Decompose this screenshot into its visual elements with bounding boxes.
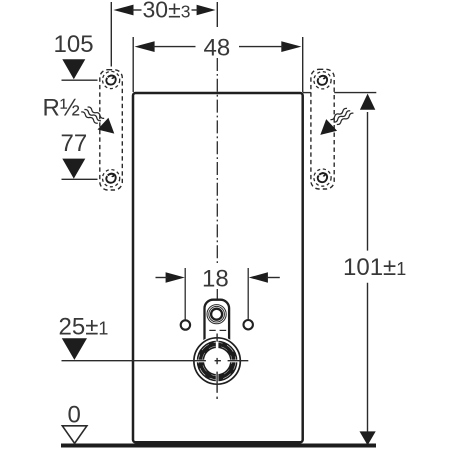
svg-text:R½: R½	[43, 95, 80, 122]
dim 101±1 top arrow (up)	[360, 94, 375, 110]
screw top-right	[314, 72, 331, 89]
drain outlet white disc	[192, 336, 242, 386]
wire: vertical centerline dash-dot	[216, 58, 218, 299]
height marker 77 triangle	[62, 159, 85, 179]
height marker 25 triangle	[62, 338, 87, 360]
svg-text:30±3: 30±3	[143, 0, 191, 23]
dim 48 right arrow	[281, 41, 301, 52]
screw bottom-right	[314, 169, 331, 186]
dim 101±1 bottom arrow (down)	[360, 431, 376, 445]
panel outline	[133, 93, 303, 442]
label 18	[200, 266, 231, 289]
wavy arrow left	[81, 105, 115, 134]
dim 18 extension line right	[247, 268, 249, 320]
vertical crosshair	[216, 334, 218, 342]
water supply tab	[205, 300, 230, 344]
dim 30±3 left arrow	[113, 5, 133, 16]
label 48	[201, 36, 233, 57]
height marker 105 triangle	[62, 59, 85, 79]
svg-text:105: 105	[54, 31, 94, 58]
dim 30±3 right arrow	[197, 5, 216, 15]
dim 101±1 top extension line	[303, 92, 311, 94]
dim 18 left arrow	[166, 272, 185, 282]
fixture hole right	[244, 320, 253, 329]
dim 18 right arrow	[249, 272, 268, 282]
datum triangle	[62, 426, 87, 444]
dim 101±1 line lower	[367, 283, 369, 433]
floor line	[61, 444, 376, 448]
drain outlet thick ring	[200, 344, 233, 377]
dim 48 extension line left	[132, 37, 134, 92]
wavy arrow right (mirrored)	[320, 106, 354, 135]
screw bottom-left	[103, 170, 120, 187]
svg-text:25±1: 25±1	[59, 314, 109, 341]
svg-text:0: 0	[68, 402, 81, 429]
drain outlet outer circle	[194, 338, 240, 384]
dim 30±3 extension line right	[216, 2, 218, 27]
right anchor dashed box	[311, 69, 334, 189]
height ref line 25 / horizontal crosshair	[62, 360, 206, 362]
svg-text:18: 18	[202, 266, 229, 293]
dim 30±3 extension line left	[110, 2, 112, 67]
dim 48 left arrow	[135, 41, 155, 52]
dim 18 extension line left	[184, 268, 186, 321]
height ref line 77	[62, 178, 98, 180]
height ref line 105	[62, 79, 98, 81]
screw top-left	[103, 71, 120, 88]
fixture hole left	[181, 320, 190, 329]
svg-text:77: 77	[61, 130, 88, 157]
dim 48 extension line right	[302, 37, 304, 92]
dim 101±1 line upper	[367, 112, 369, 251]
left anchor dashed box	[100, 70, 123, 190]
supply centerline dashes	[209, 329, 215, 331]
ring slots	[216, 340, 219, 350]
svg-text:48: 48	[204, 35, 231, 62]
svg-text:101±1: 101±1	[343, 254, 406, 281]
supply connection circles	[207, 305, 226, 324]
